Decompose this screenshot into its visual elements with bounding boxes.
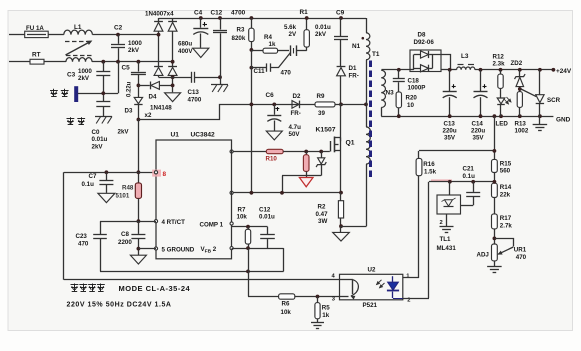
svg-text:39: 39 <box>318 110 325 117</box>
svg-text:35V: 35V <box>444 135 456 142</box>
svg-text:C14: C14 <box>472 120 484 127</box>
svg-text:N3: N3 <box>386 90 395 97</box>
svg-text:ADJ: ADJ <box>477 251 490 258</box>
svg-text:0.22u: 0.22u <box>127 81 133 97</box>
svg-text:ML431: ML431 <box>437 245 457 252</box>
svg-text:820k: 820k <box>232 35 246 42</box>
svg-text:220u: 220u <box>443 127 457 134</box>
svg-text:2kV: 2kV <box>128 47 140 54</box>
svg-text:0.01u: 0.01u <box>92 136 108 143</box>
svg-text:1002: 1002 <box>515 127 529 134</box>
svg-text:FU 1A: FU 1A <box>26 25 44 32</box>
svg-text:C12: C12 <box>211 10 223 17</box>
svg-text:C12: C12 <box>259 207 271 214</box>
svg-text:35V: 35V <box>473 135 485 142</box>
svg-text:D4: D4 <box>149 94 157 101</box>
svg-text:LED: LED <box>496 120 509 127</box>
svg-text:D8: D8 <box>418 32 426 39</box>
svg-text:L1: L1 <box>74 24 82 31</box>
svg-text:COMP 1: COMP 1 <box>200 221 224 228</box>
svg-text:R5: R5 <box>322 305 330 312</box>
svg-text:R6: R6 <box>282 301 290 308</box>
svg-text:C11: C11 <box>254 68 266 75</box>
svg-text:R16: R16 <box>423 161 435 168</box>
svg-text:C0: C0 <box>92 129 100 136</box>
svg-text:T1: T1 <box>372 51 380 58</box>
svg-text:2.7k: 2.7k <box>500 222 513 229</box>
svg-text:470: 470 <box>78 241 89 248</box>
svg-text:0.01u: 0.01u <box>259 214 275 221</box>
svg-text:1k: 1k <box>269 41 276 48</box>
svg-text:560: 560 <box>500 167 511 174</box>
svg-text:2kV: 2kV <box>92 144 104 151</box>
svg-text:C13: C13 <box>444 120 456 127</box>
svg-text:D2: D2 <box>293 93 301 100</box>
svg-text:R1: R1 <box>300 9 309 16</box>
svg-text:D92-06: D92-06 <box>414 39 435 46</box>
svg-text:R48: R48 <box>122 185 134 192</box>
svg-text:FR-: FR- <box>291 110 301 117</box>
svg-text:1N4007x4: 1N4007x4 <box>145 11 174 18</box>
svg-text:C4: C4 <box>194 10 203 17</box>
svg-text:+24V: +24V <box>556 68 572 75</box>
svg-text:MODE CL-A-35-24: MODE CL-A-35-24 <box>119 284 191 293</box>
svg-text:C18: C18 <box>408 77 420 84</box>
svg-text:0.1u: 0.1u <box>463 173 476 180</box>
svg-text:470: 470 <box>281 70 292 77</box>
svg-text:1.5k: 1.5k <box>424 169 437 176</box>
svg-text:U2: U2 <box>368 266 376 273</box>
svg-text:50V: 50V <box>289 131 301 138</box>
svg-text:N1: N1 <box>352 43 361 50</box>
svg-text:U1: U1 <box>171 132 180 139</box>
svg-text:0.01u: 0.01u <box>315 24 331 31</box>
svg-text:10k: 10k <box>281 309 292 316</box>
svg-text:10: 10 <box>407 102 414 109</box>
svg-text:R10: R10 <box>266 156 278 163</box>
svg-text:10k: 10k <box>237 214 248 221</box>
svg-text:R12: R12 <box>493 53 505 60</box>
svg-text:R3: R3 <box>237 27 245 34</box>
svg-text:R2: R2 <box>318 204 326 211</box>
svg-text:2: 2 <box>440 220 443 226</box>
svg-text:R4: R4 <box>264 34 272 41</box>
svg-text:ZD2: ZD2 <box>511 60 523 67</box>
svg-text:680u: 680u <box>178 41 192 48</box>
svg-text:D1: D1 <box>349 65 357 72</box>
svg-text:UC3842: UC3842 <box>191 132 216 139</box>
svg-text:2kV: 2kV <box>118 129 130 136</box>
svg-text:4 RT/CT: 4 RT/CT <box>162 219 186 226</box>
svg-text:C7: C7 <box>89 173 97 180</box>
svg-text:UR1: UR1 <box>514 246 527 253</box>
svg-text:L3: L3 <box>461 53 469 60</box>
svg-text:R17: R17 <box>500 215 512 222</box>
svg-text:R7: R7 <box>238 207 246 214</box>
svg-text:8: 8 <box>163 171 167 178</box>
svg-text:SCR: SCR <box>547 97 561 104</box>
svg-text:22k: 22k <box>500 191 511 198</box>
svg-text:1000P: 1000P <box>408 85 426 92</box>
svg-text:C8: C8 <box>121 231 129 238</box>
svg-text:220u: 220u <box>471 127 485 134</box>
svg-text:C9: C9 <box>336 10 345 17</box>
svg-text:470: 470 <box>516 254 527 261</box>
svg-text:R20: R20 <box>406 95 418 102</box>
svg-text:1N4148: 1N4148 <box>150 105 172 112</box>
svg-text:1000: 1000 <box>128 40 142 47</box>
svg-text:5101: 5101 <box>116 193 130 200</box>
svg-text:R14: R14 <box>500 184 512 191</box>
svg-text:2kV: 2kV <box>78 75 90 82</box>
svg-text:2V: 2V <box>289 31 297 38</box>
svg-text:0.47: 0.47 <box>316 211 329 218</box>
svg-text:C13: C13 <box>188 89 200 96</box>
svg-text:x2: x2 <box>145 112 152 119</box>
svg-text:Q1: Q1 <box>346 139 355 146</box>
svg-text:C3: C3 <box>67 72 76 79</box>
svg-text:R13: R13 <box>515 120 527 127</box>
svg-text:C2: C2 <box>114 25 123 32</box>
svg-text:400V: 400V <box>178 48 193 55</box>
svg-text:0.1u: 0.1u <box>82 181 95 188</box>
svg-text:GND: GND <box>556 117 571 124</box>
svg-text:3W: 3W <box>318 218 327 225</box>
svg-text:R9: R9 <box>317 93 325 100</box>
svg-text:TL1: TL1 <box>440 236 452 243</box>
svg-text:FR-: FR- <box>349 73 359 80</box>
svg-text:RT: RT <box>32 52 41 59</box>
svg-text:220V 15% 50Hz DC24V 1.5A: 220V 15% 50Hz DC24V 1.5A <box>67 302 172 309</box>
svg-text:5 GROUND: 5 GROUND <box>162 246 195 253</box>
svg-text:R15: R15 <box>500 160 512 167</box>
svg-text:C21: C21 <box>463 166 475 173</box>
svg-text:C5: C5 <box>122 65 131 72</box>
svg-text:P521: P521 <box>363 302 378 309</box>
svg-text:C23: C23 <box>76 233 88 240</box>
svg-text:2200: 2200 <box>118 239 132 246</box>
svg-text:4700: 4700 <box>188 97 202 104</box>
svg-text:D3: D3 <box>125 108 133 115</box>
svg-text:2.3k: 2.3k <box>493 60 506 67</box>
svg-text:K1507: K1507 <box>316 127 336 134</box>
svg-text:4700: 4700 <box>231 10 246 17</box>
svg-text:C6: C6 <box>266 92 275 99</box>
svg-text:5.6k: 5.6k <box>284 24 297 31</box>
svg-text:1k: 1k <box>322 312 329 319</box>
svg-text:2kV: 2kV <box>315 31 327 38</box>
